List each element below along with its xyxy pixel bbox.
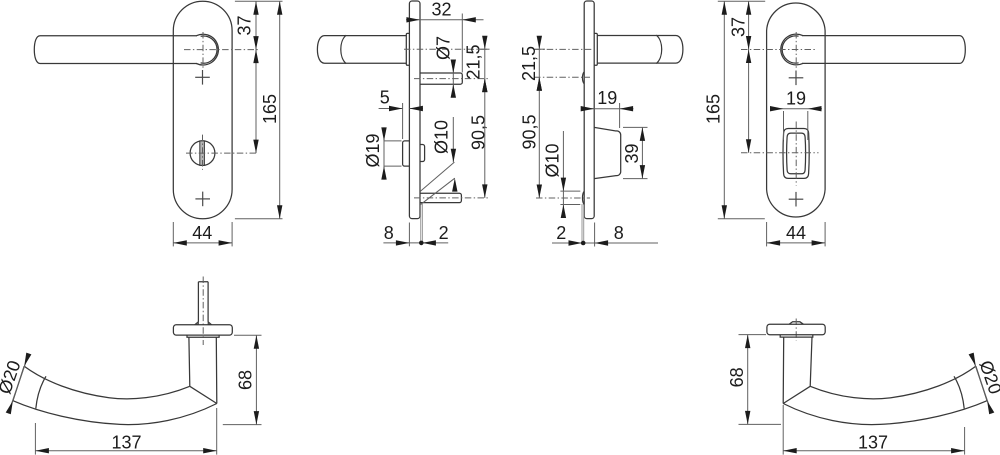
- ext line top: [235, 0, 283, 2]
- svg-text:21,5: 21,5: [519, 46, 539, 81]
- neck centrelines: [202, 32, 204, 69]
- neck inner arc v4: [782, 36, 798, 63]
- dim line 37 + handle-to-cyl: [255, 1, 257, 153]
- cylinder circle: [190, 141, 215, 166]
- grip bottom edge v6: [783, 401, 987, 425]
- neck outer arc: [196, 34, 218, 65]
- grip weld arc v3: [656, 35, 661, 63]
- handle flange side v3: [594, 33, 597, 65]
- spindle stub: [789, 322, 803, 325]
- svg-text:68: 68: [236, 370, 256, 390]
- svg-text:19: 19: [786, 88, 806, 108]
- grip top edge v6: [810, 366, 976, 399]
- screw cross top: [195, 76, 210, 78]
- rose flange v6: [767, 324, 825, 334]
- svg-text:Ø7: Ø7: [434, 36, 454, 60]
- dim line 165 v4: [723, 1, 725, 219]
- main plate side: [409, 1, 420, 219]
- thumbturn centrelines: [795, 122, 797, 186]
- dim O20 right: [971, 354, 992, 414]
- grip bottom edge: [13, 401, 217, 425]
- spindle base flares: [195, 322, 199, 325]
- dim 44: [172, 222, 174, 246]
- grip centreline: [404, 48, 490, 50]
- grip top edge: [24, 366, 190, 399]
- spindle centreline v6: [795, 319, 797, 341]
- neck centrelines v4: [795, 32, 797, 69]
- svg-text:37: 37: [729, 17, 749, 37]
- svg-text:32: 32: [431, 0, 451, 20]
- lever grip bar: [34, 36, 197, 64]
- main plate side v3: [584, 1, 594, 219]
- grip side v3: [597, 36, 683, 64]
- cylinder centrelines: [202, 135, 204, 170]
- screw top centreline v3: [534, 76, 590, 78]
- screw M10 bottom: [420, 193, 461, 202]
- thin plate 2mm: [420, 204, 422, 243]
- ext line bottom v4: [718, 218, 765, 220]
- svg-text:44: 44: [786, 223, 806, 243]
- screw head hidden bottom: [582, 191, 584, 204]
- plate (stadium 44x165): [173, 1, 232, 219]
- neck inner arc: [201, 36, 217, 63]
- svg-text:39: 39: [622, 143, 642, 163]
- dim line 165: [279, 1, 281, 219]
- lever neck v5: [189, 337, 217, 403]
- dim 44 v4: [766, 222, 768, 246]
- svg-text:137: 137: [858, 432, 888, 452]
- lever neck v6: [783, 337, 812, 403]
- screw M10 centreline: [414, 197, 490, 199]
- screw head hidden top: [582, 72, 584, 84]
- screw M7 top: [420, 73, 462, 84]
- spindle centreline: [202, 277, 204, 346]
- thumbturn knob side: [594, 127, 621, 178]
- dim 68 left: [234, 334, 262, 336]
- cylinder slot: [200, 141, 205, 165]
- neck-grip mitre v6: [783, 386, 810, 403]
- svg-text:8: 8: [614, 223, 624, 243]
- grip end weld arc v6: [954, 376, 964, 408]
- rose under-ring: [187, 335, 219, 337]
- screw bottom centreline v3: [536, 197, 590, 199]
- rose under-ring v6: [780, 335, 813, 337]
- grip centreline v3: [534, 48, 594, 50]
- bump right: [420, 145, 425, 162]
- rose flange: [173, 325, 232, 335]
- thumbturn outer: [783, 129, 809, 179]
- lever grip bar v4: [802, 36, 965, 64]
- screw M7 centreline: [414, 78, 490, 80]
- svg-text:165: 165: [703, 94, 723, 124]
- screw cross bottom: [195, 198, 210, 200]
- svg-text:68: 68: [727, 367, 747, 387]
- spindle: [198, 282, 208, 322]
- svg-text:2: 2: [556, 223, 566, 243]
- cylinder bump left: [403, 141, 410, 166]
- svg-text:8: 8: [384, 223, 394, 243]
- grip end weld arc: [36, 376, 46, 408]
- dim 68 right: [739, 334, 767, 336]
- plate v4 (stadium): [767, 3, 826, 217]
- svg-text:90,5: 90,5: [469, 115, 489, 150]
- svg-text:90,5: 90,5: [519, 114, 539, 149]
- grip side: [317, 36, 406, 64]
- svg-text:2: 2: [439, 223, 449, 243]
- thin plate 2mm v3: [581, 204, 583, 243]
- svg-text:44: 44: [192, 223, 212, 243]
- oblique ext lines: [420, 162, 454, 191]
- neck outer arc v4: [781, 34, 803, 65]
- svg-text:Ø10: Ø10: [431, 120, 451, 154]
- neck-grip mitre: [190, 386, 217, 403]
- dim 137 left: [34, 423, 36, 455]
- dim 137 right: [782, 405, 784, 455]
- svg-text:21,5: 21,5: [464, 44, 484, 79]
- screw cross top v4: [789, 77, 804, 79]
- dim line 37 v4: [748, 1, 750, 153]
- svg-text:5: 5: [380, 87, 390, 107]
- grip end face: [13, 366, 24, 401]
- screw cross bottom v4: [789, 198, 804, 200]
- ext line bottom: [235, 218, 283, 220]
- ext line top v4: [718, 0, 765, 2]
- dim O20 left: [8, 354, 29, 414]
- svg-text:137: 137: [111, 432, 141, 452]
- thumbturn inner: [787, 133, 806, 174]
- svg-text:Ø19: Ø19: [363, 133, 383, 167]
- svg-text:Ø10: Ø10: [542, 143, 562, 177]
- grip weld arc: [341, 35, 346, 63]
- handle flange side: [406, 33, 409, 65]
- grip end face v6: [976, 366, 987, 401]
- svg-text:37: 37: [234, 15, 254, 35]
- svg-text:19: 19: [597, 88, 617, 108]
- svg-text:165: 165: [260, 94, 280, 124]
